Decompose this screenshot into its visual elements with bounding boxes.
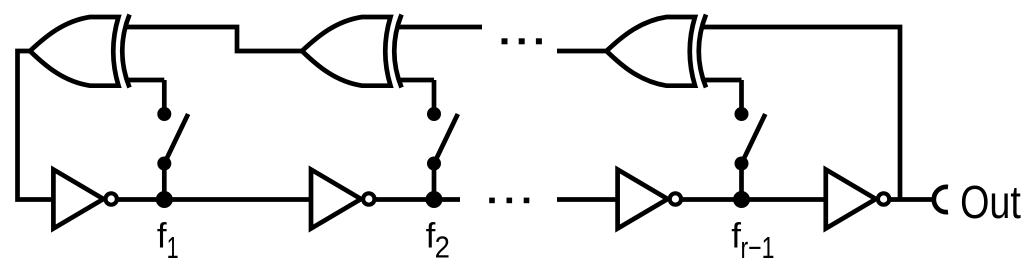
svg-text:2: 2	[435, 230, 450, 264]
svg-text:Out: Out	[960, 176, 1021, 228]
svg-text:f: f	[157, 217, 167, 256]
svg-text:r−1: r−1	[741, 231, 775, 264]
svg-text:1: 1	[167, 230, 179, 264]
